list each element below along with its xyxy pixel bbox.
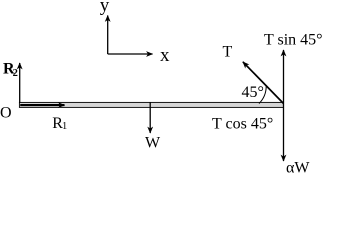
svg-text:αW: αW	[286, 160, 310, 177]
svg-text:T cos 45°: T cos 45°	[212, 116, 273, 133]
svg-text:1: 1	[62, 121, 67, 132]
svg-text:O: O	[0, 104, 12, 121]
svg-text:45°: 45°	[242, 84, 264, 101]
svg-text:W: W	[145, 134, 161, 151]
svg-text:2: 2	[13, 68, 18, 79]
svg-text:T: T	[223, 44, 233, 61]
svg-text:y: y	[100, 0, 110, 16]
svg-text:x: x	[160, 45, 170, 66]
svg-text:T sin 45°: T sin 45°	[264, 32, 323, 49]
